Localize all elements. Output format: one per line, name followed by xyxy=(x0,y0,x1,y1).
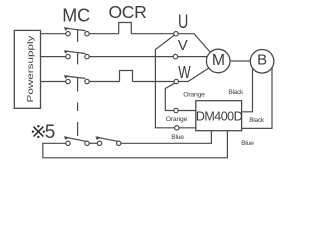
wire motor to brake xyxy=(230,60,250,62)
wire phase3 from supply to MC xyxy=(41,81,66,83)
black wire 1 brake to DM400D xyxy=(242,68,253,112)
switch circles terminal 3 xyxy=(97,141,101,145)
node C orange terminal xyxy=(175,126,179,130)
svg-text:Orange: Orange xyxy=(183,91,205,98)
wire node U to motor xyxy=(178,34,210,53)
svg-text:Blue: Blue xyxy=(241,140,254,147)
motor circle M xyxy=(206,49,230,73)
wire phase1 from supply to MC xyxy=(41,33,66,35)
orange tap from node W down to node B xyxy=(165,83,174,110)
wire node W to motor xyxy=(179,67,211,81)
svg-text:M: M xyxy=(212,52,225,69)
svg-text:Black: Black xyxy=(249,117,265,124)
wire phase2 from supply to MC xyxy=(41,56,66,58)
switch circles terminal 4 xyxy=(117,141,121,145)
switch blade 2 xyxy=(98,137,118,141)
switch circles terminal 2 xyxy=(85,141,89,145)
wire node B to DM400D xyxy=(178,110,196,112)
wire phase3 OCR to node W xyxy=(133,81,175,83)
svg-text:U: U xyxy=(178,11,188,32)
svg-text:Orange: Orange xyxy=(166,116,188,123)
blue wire DM400D bottom to switch xyxy=(121,131,211,144)
node B orange terminal xyxy=(174,108,178,112)
wire between switch poles xyxy=(89,142,97,144)
svg-text:W: W xyxy=(178,63,191,82)
svg-text:DM400D: DM400D xyxy=(196,109,243,123)
node V terminal xyxy=(173,54,177,58)
MC contact pole 2 xyxy=(66,54,70,58)
black wire 2 brake to DM400D xyxy=(242,68,272,129)
OCR element phase1 xyxy=(119,23,132,34)
blue wire DM400D bottom long return xyxy=(43,131,228,158)
wire phase1 OCR to node U xyxy=(131,33,174,35)
MC contact pole 1 xyxy=(66,32,70,36)
wire phase2 MC to node V xyxy=(89,56,173,58)
orange tap from node U down to node C xyxy=(155,35,174,128)
wire phase1 MC to OCR xyxy=(89,33,119,35)
svg-text:Black: Black xyxy=(228,89,244,96)
svg-text:MC: MC xyxy=(62,5,90,25)
wire node C to DM400D xyxy=(179,127,196,129)
mechanical linkage dash segment 1 xyxy=(77,103,79,112)
svg-text:B: B xyxy=(257,52,267,69)
svg-text:OCR: OCR xyxy=(109,2,147,22)
power supply box xyxy=(14,30,40,108)
wire node V to motor xyxy=(178,56,207,58)
mechanical linkage dash segment 2 xyxy=(77,122,79,136)
node W terminal xyxy=(174,79,178,83)
switch blade 1 xyxy=(66,137,86,141)
svg-text:V: V xyxy=(178,37,188,54)
svg-text:Blue: Blue xyxy=(171,134,184,141)
switch circles terminal 1 xyxy=(66,141,70,145)
svg-text:Powersupply: Powersupply xyxy=(26,34,35,102)
MC contact pole 3 xyxy=(66,79,70,83)
wire phase3 MC to OCR xyxy=(89,81,119,83)
brake circle B xyxy=(250,50,274,74)
label note reference mark xyxy=(34,127,44,137)
OCR element phase3 xyxy=(120,71,133,82)
svg-text:5: 5 xyxy=(45,122,56,143)
DM400D box xyxy=(196,101,242,131)
node U terminal xyxy=(174,32,178,36)
